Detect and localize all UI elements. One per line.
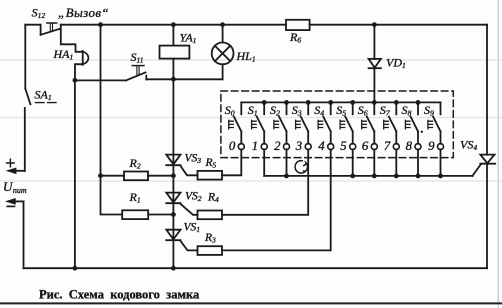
node key7 bus [394, 174, 399, 179]
node HL1 top [220, 22, 225, 27]
wire key7 down [395, 149, 397, 176]
node rail key at 352.7 [350, 100, 355, 105]
wire VS chain vertical [172, 79, 174, 268]
svg-text:Рис. Схема кодового замка: Рис. Схема кодового замка [39, 288, 200, 302]
node VD1 top [372, 22, 377, 27]
svg-text:8: 8 [406, 139, 413, 153]
node R2 left [98, 173, 103, 178]
wire YA1 bottom [172, 59, 174, 80]
svg-text:6: 6 [362, 139, 369, 153]
wire branch vertical x100 [101, 25, 123, 215]
pushbutton S7 [384, 102, 400, 149]
scan artifact faint line 2 [0, 117, 502, 119]
wire S11 to lamp [146, 78, 222, 80]
svg-text:R3: R3 [204, 232, 216, 245]
svg-text:R2: R2 [129, 156, 141, 171]
keypad bus to VS4 gate [264, 175, 472, 177]
node key5 bus [350, 174, 355, 179]
svg-text:7: 7 [384, 139, 391, 153]
svg-text:R1: R1 [129, 190, 141, 205]
node key8 bus [416, 174, 421, 179]
svg-text:4: 4 [318, 139, 325, 153]
pushbutton S2 [274, 102, 290, 149]
pushbutton S5 [340, 102, 356, 149]
pushbutton S12 [41, 23, 61, 35]
buzzer HA1 [83, 51, 89, 65]
ink blot near S8 [421, 131, 423, 133]
pushbutton S4 [318, 102, 334, 149]
resistor R4 [198, 211, 223, 220]
pushbutton S0 [229, 102, 245, 149]
thyristor VS3 [166, 155, 197, 176]
plus terminal arrow [7, 168, 25, 174]
svg-text:S4: S4 [314, 103, 324, 118]
node VS chain ground [171, 266, 176, 271]
wire R5 to key0 [222, 149, 241, 175]
node rail key at 308.2 [306, 100, 311, 105]
resistor R5 [198, 171, 223, 180]
wire key5 down [352, 149, 354, 176]
svg-text:„Вызов“: „Вызов“ [58, 5, 109, 20]
wire R2 right lead [148, 175, 173, 177]
node rail key at 418.0 [416, 100, 421, 105]
svg-text:1: 1 [252, 139, 258, 153]
wire top bus left [25, 24, 40, 26]
node rail key at 396.3 [394, 100, 399, 105]
svg-text:S0: S0 [225, 103, 235, 118]
wire keypad rail [241, 101, 440, 103]
node rail key at 286.5 [284, 100, 289, 105]
node HA1 ground [73, 266, 78, 271]
wire R4 to key3 [222, 149, 308, 214]
svg-text:S1: S1 [248, 103, 258, 118]
wire YA1 top [172, 25, 174, 46]
svg-text:YA1: YA1 [180, 31, 197, 46]
svg-text:0: 0 [229, 139, 236, 153]
svg-text:VS2: VS2 [185, 191, 202, 204]
node S12 output [98, 22, 103, 27]
wire key6 down [373, 149, 375, 176]
node rail key at 330.7 [328, 100, 333, 105]
svg-text:3: 3 [295, 139, 302, 153]
resistor R6 [286, 20, 310, 30]
svg-text:S2: S2 [270, 103, 280, 118]
pushbutton S3 [296, 102, 312, 149]
wire key2 down [286, 149, 288, 176]
wire VD1 lower [373, 68, 375, 102]
wire bottom bus [24, 267, 488, 269]
svg-text:SA1: SA1 [35, 88, 52, 103]
node rail key at 264.2 [262, 100, 267, 105]
svg-text:R4: R4 [207, 192, 219, 205]
minus terminal arrow [6, 199, 23, 205]
electromagnet YA1 [160, 46, 190, 59]
svg-text:S12: S12 [32, 6, 46, 21]
scan artifact right edge [497, 0, 499, 308]
wire top bus middle [61, 24, 286, 26]
node key9 bus [438, 174, 443, 179]
keypad dashed box [221, 91, 453, 158]
svg-text:R5: R5 [205, 157, 217, 170]
wire key1 down [263, 149, 265, 176]
node S11/YA1 [171, 77, 176, 82]
svg-text:HA1: HA1 [53, 47, 74, 62]
node rail key at 374.3 [372, 100, 377, 105]
thyristor VS1 [166, 230, 197, 251]
svg-text:S5: S5 [336, 103, 346, 118]
thyristor VS2 [166, 193, 197, 215]
wire HA1 ground vertical [74, 80, 76, 268]
minus sign [7, 205, 14, 207]
svg-text:VS4: VS4 [460, 138, 477, 153]
resistor R2 [124, 172, 148, 181]
svg-text:VS3: VS3 [185, 153, 202, 166]
wire left top vertical [24, 25, 26, 89]
svg-text:VS1: VS1 [184, 222, 201, 235]
wire HA1 feed [61, 31, 82, 52]
svg-text:9: 9 [428, 139, 435, 153]
node R2 junction [171, 173, 176, 178]
thyristor VS4 [472, 155, 495, 176]
scan artifact faint line 1 [0, 59, 502, 61]
svg-text:S7: S7 [380, 103, 391, 118]
svg-text:VD1: VD1 [386, 56, 406, 71]
pushbutton S6 [362, 102, 378, 149]
pushbutton S8 [405, 102, 421, 149]
wire R1 right lead [148, 214, 173, 216]
svg-text:5: 5 [340, 139, 347, 153]
wire VD1 upper [373, 25, 375, 59]
pushbutton S1 [252, 102, 268, 149]
node R1 junction [171, 212, 176, 217]
wire right bus lower [486, 165, 488, 269]
wire top bus right [310, 24, 487, 26]
bottom rule [0, 302, 502, 304]
wire key9 down [440, 149, 442, 176]
pushbutton S9 [428, 102, 444, 149]
pushbutton S11 [75, 66, 146, 81]
wire key8 down [417, 149, 419, 176]
lamp HL1 [212, 43, 234, 65]
svg-text:HL1: HL1 [236, 49, 256, 64]
plus sign [7, 159, 15, 167]
svg-text:R6: R6 [289, 30, 301, 45]
svg-text:S9: S9 [424, 103, 434, 118]
svg-text:S11: S11 [131, 50, 144, 65]
wire HA1 bottom [75, 64, 83, 80]
svg-text:S8: S8 [402, 103, 412, 118]
wire right bus upper [486, 25, 488, 155]
resistor R1 [122, 210, 148, 219]
switch SA1 [25, 89, 56, 171]
wire HL1 bottom [222, 64, 224, 79]
correction curl [295, 161, 307, 173]
wire left bottom vertical [23, 201, 25, 268]
node HA1/S11 [73, 78, 78, 83]
svg-text:2: 2 [274, 139, 281, 153]
svg-text:S6: S6 [358, 103, 368, 118]
wire R2 left lead [101, 175, 125, 177]
resistor R3 [198, 246, 223, 255]
node YA1 top [171, 22, 176, 27]
svg-text:S3: S3 [292, 103, 302, 118]
scan artifact faint line 3 [0, 180, 502, 182]
wire HL1 top [222, 25, 224, 43]
node key6 bus [372, 174, 377, 179]
wire R3 to key4 [222, 149, 331, 250]
diode VD1 [369, 59, 381, 68]
node key2 bus [284, 174, 289, 179]
